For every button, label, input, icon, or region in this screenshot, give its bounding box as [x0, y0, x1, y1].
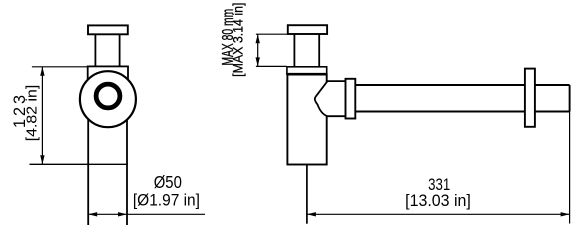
- collar (front view): [88, 66, 128, 79]
- extension line 331 right: [569, 112, 571, 224]
- body cap (side view): [287, 67, 327, 74]
- arrowhead left (331): [307, 212, 316, 216]
- arrowhead down (123 bottom): [40, 155, 44, 164]
- dimension line 123 vertical: [41, 67, 43, 165]
- drain ring: [96, 84, 120, 108]
- extension line MAX top: [256, 33, 288, 35]
- inlet pipe walls (side view): [293, 34, 295, 66]
- arrowhead up (123 top): [40, 67, 44, 76]
- svg-text:[13.03 in]: [13.03 in]: [405, 191, 471, 210]
- joint line across cylinder / extension line: [30, 163, 129, 165]
- drain tailpiece: [306, 165, 308, 224]
- body (side view): [287, 74, 326, 164]
- inlet pipe walls (front view): [94, 35, 96, 68]
- dimension line 331: [307, 213, 570, 215]
- dimension line MAX vertical: [257, 34, 259, 66]
- trap outer circle: [80, 71, 136, 127]
- horizontal outlet pipe: [355, 84, 569, 86]
- dimension line Ø50 bottom: [88, 213, 205, 215]
- svg-text:Ø50: Ø50: [154, 173, 182, 192]
- svg-text:[Ø1.97 in]: [Ø1.97 in]: [133, 191, 200, 210]
- coupling nut: [346, 79, 356, 119]
- extension line MAX bottom: [256, 65, 287, 67]
- cylinder body walls (front view): [87, 70, 89, 225]
- top flange (side view): [288, 25, 327, 34]
- arrowhead right (331): [561, 212, 570, 216]
- pipe end line: [569, 85, 571, 112]
- arrowhead up (MAX): [256, 34, 260, 43]
- arrowhead right (Ø50): [118, 212, 127, 216]
- wall flange on pipe: [525, 69, 535, 127]
- arrowhead left (Ø50): [88, 212, 97, 216]
- svg-text:[4.82 in]: [4.82 in]: [24, 85, 40, 142]
- cap thick rim line: [287, 73, 327, 76]
- top flange (front view): [88, 25, 128, 34]
- outlet elbow dome: [315, 81, 346, 116]
- svg-text:[MAX 3.14 in]: [MAX 3.14 in]: [230, 3, 246, 77]
- extension line top (123 dim): [32, 66, 88, 68]
- arrowhead down (MAX): [256, 57, 260, 66]
